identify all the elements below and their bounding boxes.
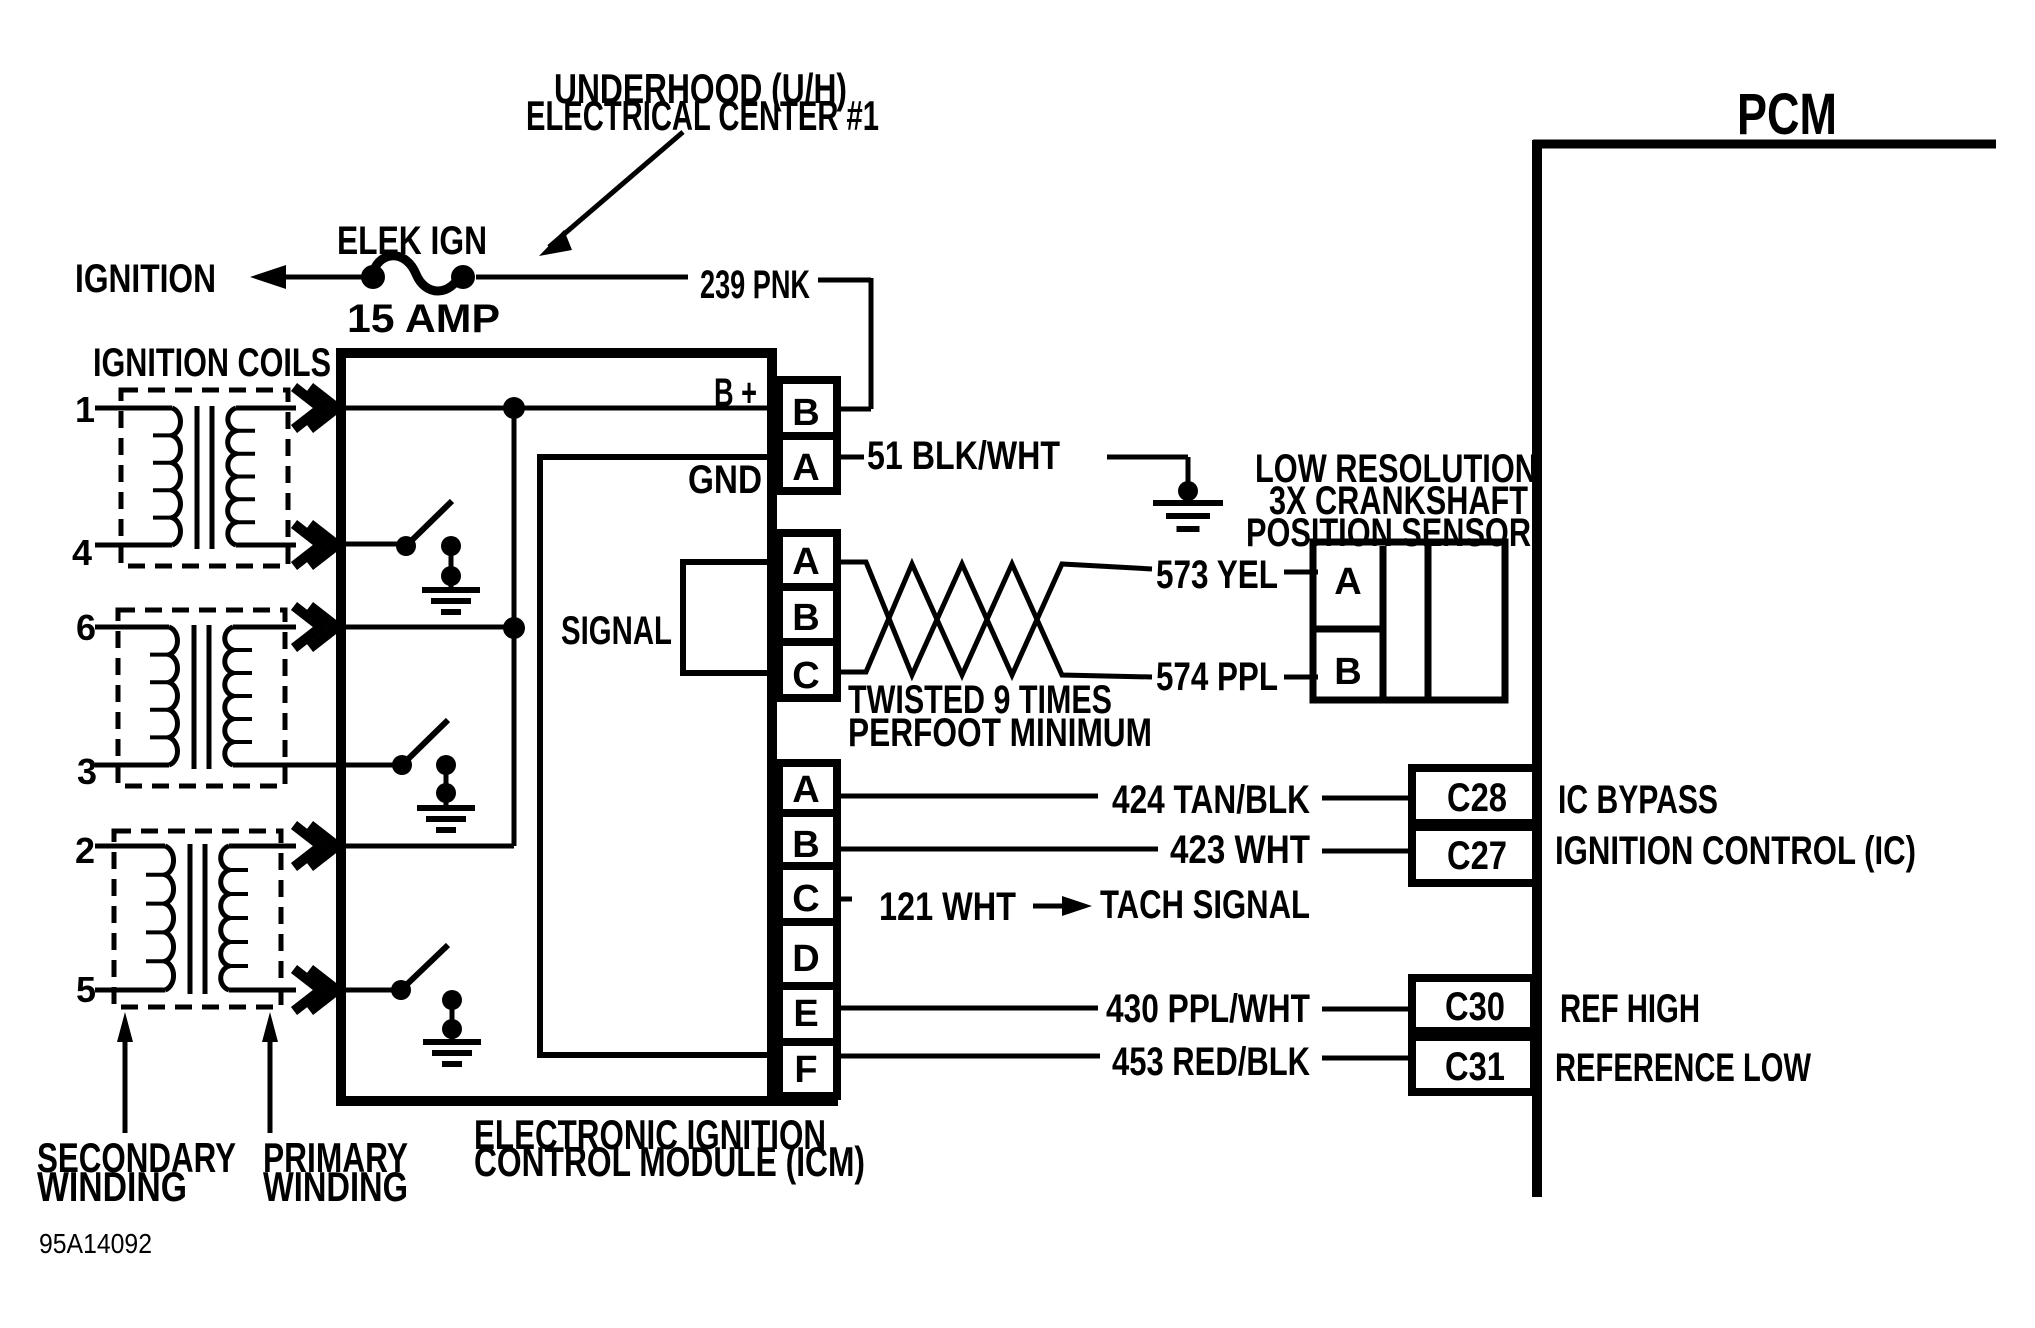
ICM box <box>341 353 772 1101</box>
svg-text:6: 6 <box>76 607 96 648</box>
svg-text:POSITION SENSOR: POSITION SENSOR <box>1246 511 1531 555</box>
PCM boundary <box>1532 140 1542 1197</box>
wire 51 BLK/WHT to ground <box>1107 455 1188 460</box>
wire B+ (coil 1 to pin B) <box>342 406 777 411</box>
svg-text:A: A <box>792 447 819 489</box>
svg-text:B: B <box>1334 651 1361 693</box>
wire coil 3 to switch 2 <box>342 763 402 768</box>
junction dot B+ <box>503 397 525 419</box>
svg-text:B: B <box>792 824 819 866</box>
svg-text:ELEK IGN: ELEK IGN <box>337 219 487 263</box>
wire stub to sensor A <box>1284 570 1318 575</box>
svg-text:IC BYPASS: IC BYPASS <box>1558 778 1718 822</box>
svg-text:1: 1 <box>75 389 95 430</box>
svg-text:B: B <box>792 597 819 639</box>
svg-text:121 WHT: 121 WHT <box>879 885 1016 929</box>
wire 424 stub to C28 <box>1322 796 1412 801</box>
svg-text:C31: C31 <box>1445 1045 1505 1089</box>
wire 430 stub to C30 <box>1322 1007 1412 1012</box>
svg-text:TACH SIGNAL: TACH SIGNAL <box>1100 883 1310 927</box>
wire coil 5 to switch 3 <box>342 988 401 993</box>
wire stub to sensor B <box>1284 675 1318 680</box>
svg-text:WINDING: WINDING <box>263 1163 408 1210</box>
svg-text:PCM: PCM <box>1737 82 1837 147</box>
wire 239 PNK (fuse to label) <box>476 275 688 280</box>
svg-text:C30: C30 <box>1445 985 1505 1029</box>
wire 423 stub to C27 <box>1322 849 1412 854</box>
svg-text:2: 2 <box>75 830 95 871</box>
wire 423 WHT <box>837 847 1158 852</box>
wire coil 2 to branch <box>342 844 514 849</box>
svg-text:4: 4 <box>72 532 92 573</box>
wire 239 PNK jog to pin B <box>818 278 871 283</box>
connector pin E (output) <box>779 986 837 1042</box>
svg-text:51 BLK/WHT: 51 BLK/WHT <box>867 434 1060 478</box>
svg-text:C: C <box>792 878 819 920</box>
wire coil 6 to branch <box>342 625 514 630</box>
ignition coil T3 (cyl 2/5) <box>114 831 281 1007</box>
connector pin A (GND) <box>779 436 837 491</box>
svg-text:430 PPL/WHT: 430 PPL/WHT <box>1106 987 1310 1031</box>
PCM connector C27 <box>1412 827 1537 883</box>
wire coil 4 to switch 1 <box>342 542 406 547</box>
switch coil 2/5 driver <box>391 980 411 1000</box>
svg-text:423 WHT: 423 WHT <box>1170 828 1310 872</box>
svg-text:A: A <box>1334 561 1361 603</box>
svg-text:5: 5 <box>76 969 96 1010</box>
connector pin A (output) <box>779 763 837 813</box>
ground (51 BLK/WHT) <box>1178 481 1198 501</box>
svg-text:574 PPL: 574 PPL <box>1156 655 1278 699</box>
wire branch vertical <box>512 408 517 846</box>
svg-text:239 PNK: 239 PNK <box>700 263 810 307</box>
ignition coil T2 (cyl 6/3) <box>118 610 285 786</box>
connector pin A (signal) <box>779 533 837 587</box>
ignition coil T1 (cyl 1/4) <box>121 390 288 566</box>
svg-text:SIGNAL: SIGNAL <box>561 609 672 653</box>
svg-text:B +: B + <box>714 371 757 415</box>
wire 574 PPL twisted pair <box>840 564 1152 677</box>
switch coil 6/3 driver <box>392 755 412 775</box>
junction dot coil 6 <box>503 617 525 639</box>
connector pin C (output) <box>779 866 837 922</box>
svg-text:C27: C27 <box>1447 834 1507 878</box>
svg-text:A: A <box>792 541 819 583</box>
PCM connector C28 <box>1412 768 1537 823</box>
svg-text:A: A <box>792 769 819 811</box>
svg-text:453 RED/BLK: 453 RED/BLK <box>1112 1040 1310 1084</box>
svg-text:E: E <box>793 993 818 1035</box>
svg-text:3: 3 <box>77 751 97 792</box>
svg-text:F: F <box>794 1049 817 1091</box>
connector pin B <box>779 380 837 436</box>
svg-text:C28: C28 <box>1447 776 1507 820</box>
arrow tach <box>1033 904 1066 909</box>
connector pin B (output) <box>779 813 837 866</box>
wire 121 WHT stub <box>837 897 852 902</box>
wire IGNITION feed (left of fuse) <box>266 275 371 280</box>
svg-text:D: D <box>792 938 819 980</box>
wire 51 BLK/WHT stub <box>837 455 864 460</box>
svg-text:15 AMP: 15 AMP <box>347 297 500 341</box>
fuse ELEK IGN 15 AMP <box>361 265 385 289</box>
connector pin C (signal) <box>779 642 837 698</box>
wire 453 RED/BLK <box>837 1054 1100 1059</box>
svg-text:424 TAN/BLK: 424 TAN/BLK <box>1112 778 1310 822</box>
connector pin F (output) <box>779 1042 837 1096</box>
PCM connector C31 <box>1412 1037 1534 1092</box>
signal bracket to pins A/C <box>683 562 776 673</box>
wire 453 stub to C31 <box>1322 1056 1412 1061</box>
arrow UNDERHOOD callout <box>549 132 683 247</box>
svg-text:95A14092: 95A14092 <box>39 1228 152 1259</box>
arrow to IGNITION <box>250 265 286 289</box>
wire 573 YEL twisted pair <box>840 562 1152 675</box>
svg-text:ELECTRICAL CENTER #1: ELECTRICAL CENTER #1 <box>526 92 879 139</box>
svg-text:IGNITION COILS: IGNITION COILS <box>93 341 331 385</box>
connector pin D (output) <box>779 922 837 986</box>
ground (switch 3) <box>423 1039 481 1045</box>
ground (switch 2) <box>417 805 475 811</box>
svg-text:CONTROL MODULE (ICM): CONTROL MODULE (ICM) <box>474 1138 865 1185</box>
connector pin B (signal) <box>779 587 837 642</box>
svg-text:GND: GND <box>688 458 762 502</box>
svg-text:C: C <box>792 655 819 697</box>
svg-text:REFERENCE LOW: REFERENCE LOW <box>1555 1046 1811 1090</box>
crankshaft position sensor connector <box>1313 542 1505 700</box>
ground (switch 1) <box>422 587 480 593</box>
arrow primary winding <box>268 1036 273 1133</box>
svg-text:REF HIGH: REF HIGH <box>1560 987 1700 1031</box>
svg-text:PERFOOT MINIMUM: PERFOOT MINIMUM <box>848 711 1152 755</box>
svg-text:IGNITION: IGNITION <box>75 257 216 301</box>
switch coil 1/4 driver <box>396 536 416 556</box>
PCM connector C30 <box>1412 978 1534 1031</box>
svg-text:573 YEL: 573 YEL <box>1156 553 1278 597</box>
svg-text:IGNITION CONTROL (IC): IGNITION CONTROL (IC) <box>1555 829 1916 873</box>
arrow secondary winding <box>123 1036 128 1133</box>
wire 424 TAN/BLK <box>837 794 1098 799</box>
svg-text:B: B <box>792 392 819 434</box>
wire 430 PPL/WHT <box>837 1006 1098 1011</box>
svg-text:WINDING: WINDING <box>37 1163 187 1210</box>
SIGNAL inner box <box>540 457 772 1055</box>
